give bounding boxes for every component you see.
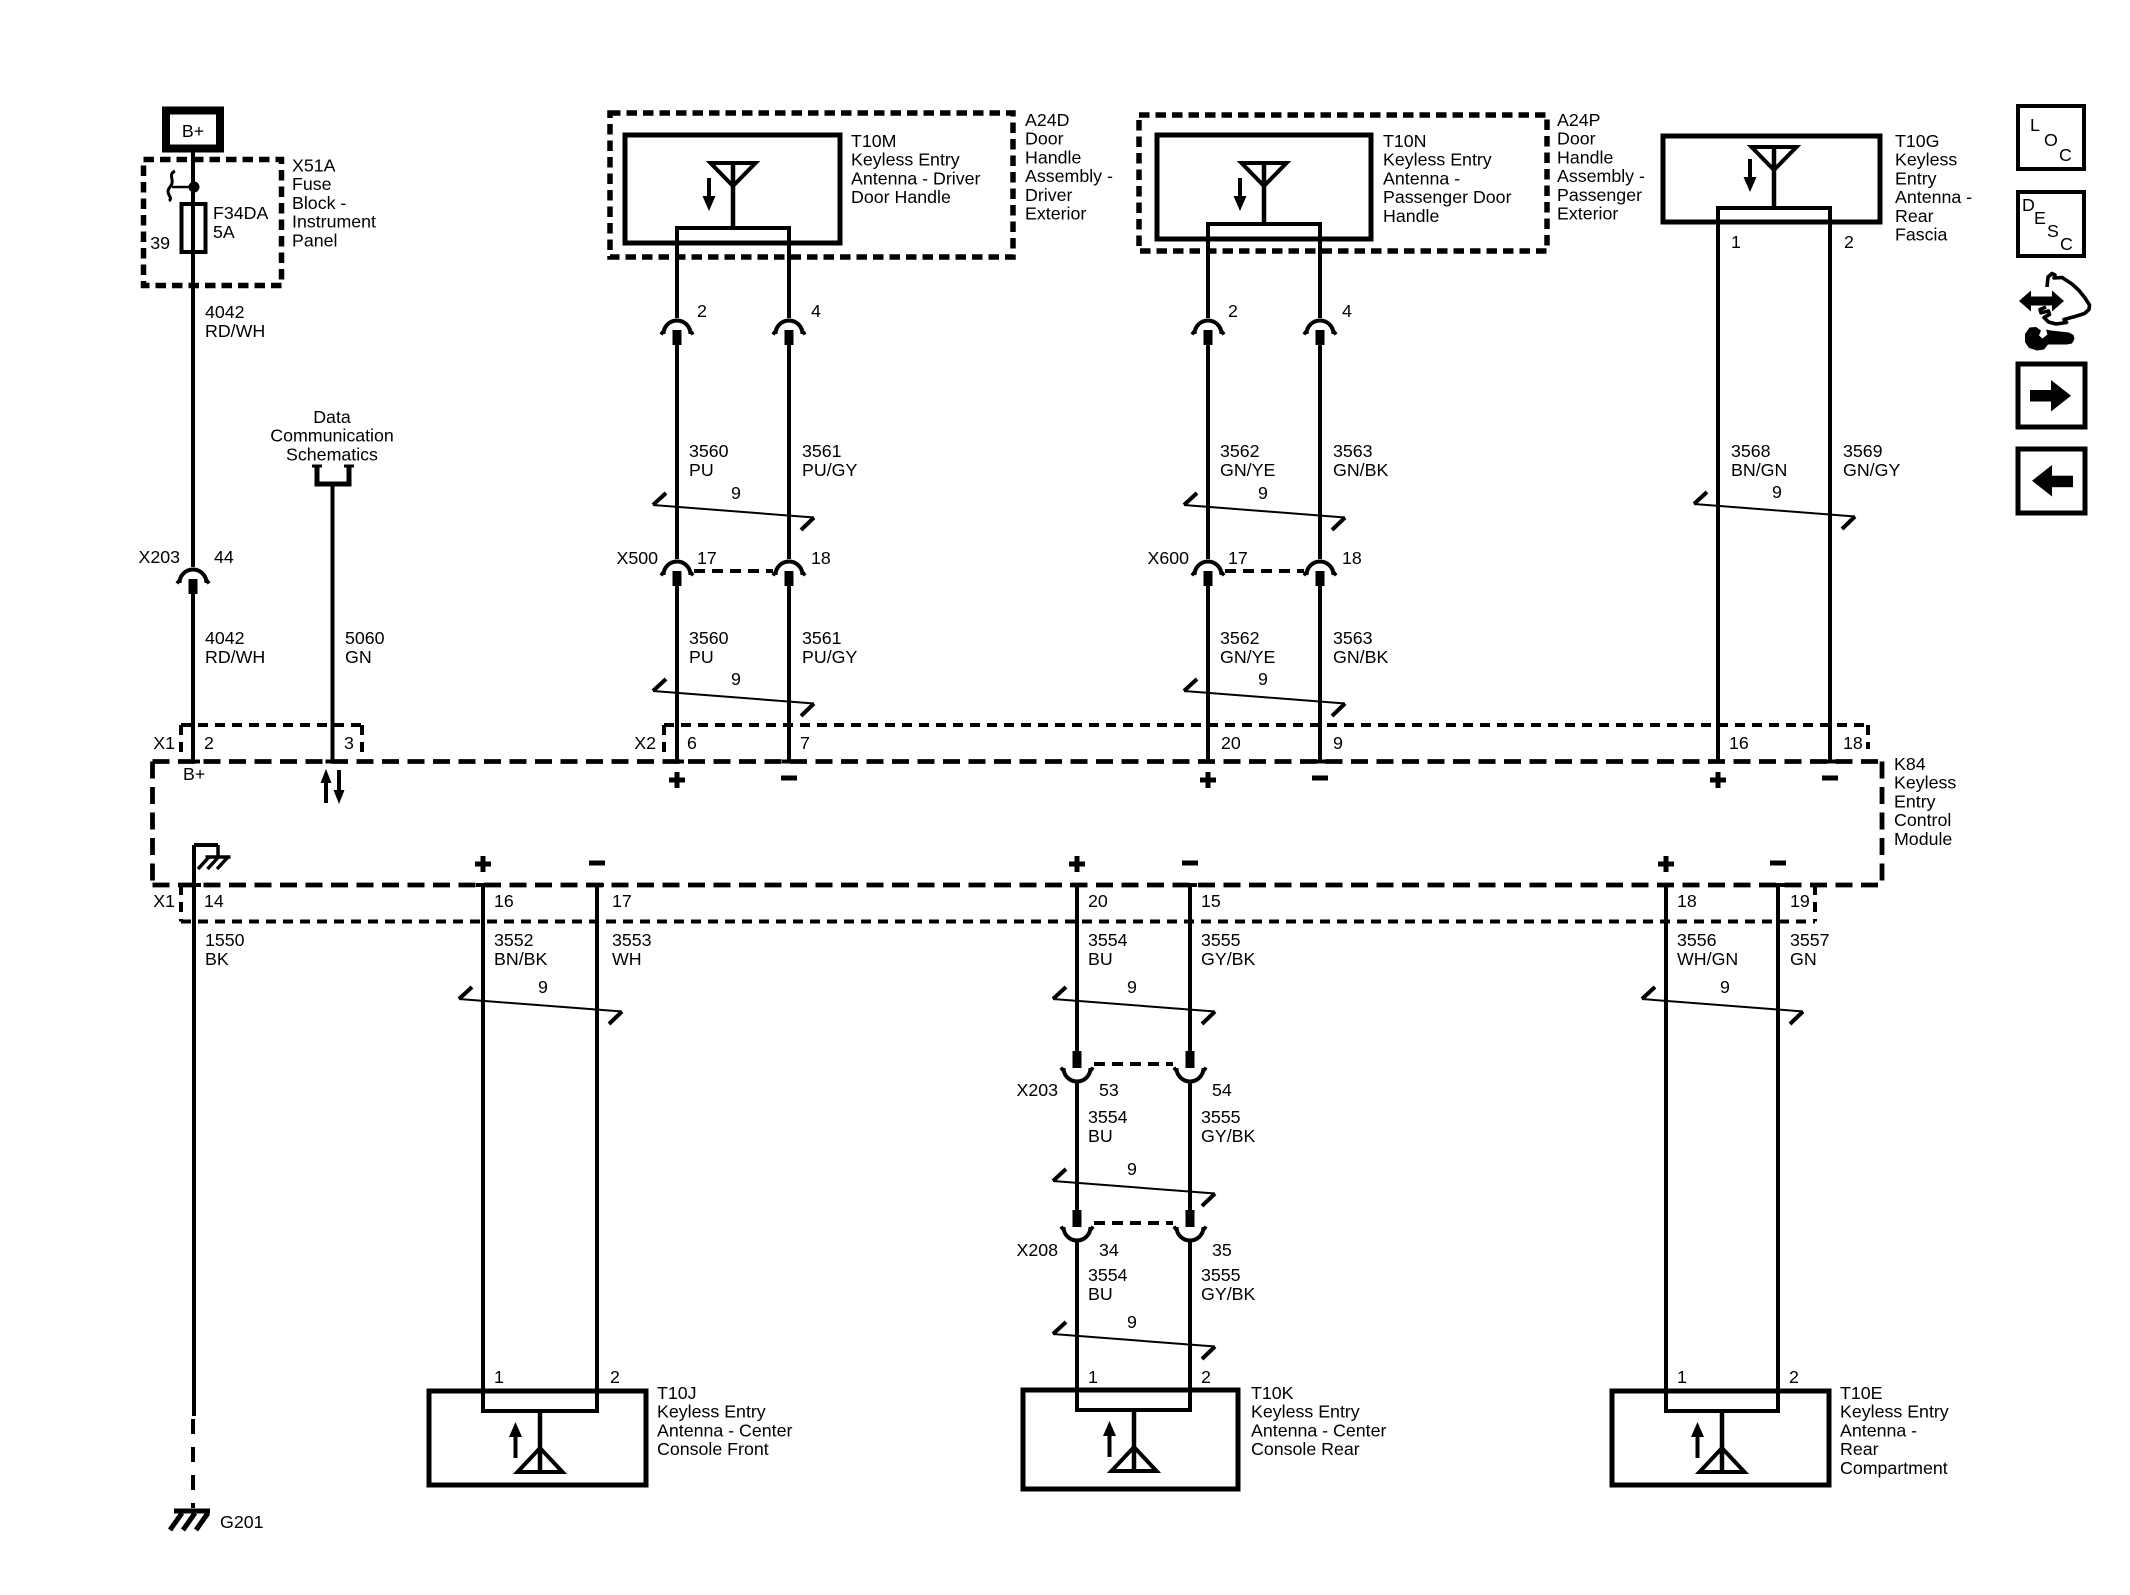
label 3562 GN/YE upper [1220,441,1275,480]
svg-text:16: 16 [1729,733,1749,753]
svg-text:Passenger Door: Passenger Door [1383,187,1512,207]
label 3563 GN/BK upper [1333,441,1388,480]
svg-text:PU: PU [689,460,714,480]
svg-text:Console Rear: Console Rear [1251,1439,1360,1459]
wire 3557 GN [1771,885,1785,1391]
svg-text:E: E [2034,208,2046,228]
minus marker pin 18 top [1822,776,1838,781]
twisted pair marker rear compartment [1642,977,1803,1024]
pin 39 label [150,233,170,253]
svg-text:54: 54 [1212,1080,1232,1100]
svg-text:3561: 3561 [802,441,842,461]
svg-text:53: 53 [1099,1080,1119,1100]
twisted pair marker rear fascia [1694,482,1855,529]
svg-text:3568: 3568 [1731,441,1771,461]
svg-text:Rear: Rear [1895,206,1934,226]
wire 3569 GN/GY [1823,222,1837,762]
label A24D Door Handle Assembly - Driver Exterior [1025,110,1113,224]
svg-text:PU/GY: PU/GY [802,647,857,667]
antenna T10E box [1612,1391,1829,1485]
label 3560 PU lower [689,628,729,667]
connector X500 link [694,569,773,573]
wire 3555 GY/BK segment 3 [1188,1241,1192,1390]
svg-text:9: 9 [1258,483,1268,503]
label T10N Keyless Entry Antenna - Passenger Door Handle [1383,131,1512,226]
plus marker pin 6 [669,772,685,788]
svg-text:G201: G201 [220,1512,264,1532]
wire 3552 BN/BK [476,885,490,1391]
wire 3556 WH/GN [1659,885,1673,1391]
svg-text:7: 7 [800,733,810,753]
twisted pair marker passenger upper [1184,483,1345,530]
icon back arrow box [2018,449,2085,513]
icon wrench [2025,327,2075,351]
wire 3562 GN/YE lower [1201,586,1215,762]
svg-text:C: C [2060,234,2073,254]
wire 3560 PU upper [675,345,679,559]
svg-text:Exterior: Exterior [1557,204,1618,224]
svg-text:9: 9 [1720,977,1730,997]
wire 4042 RD/WH lower [186,594,200,762]
svg-text:4: 4 [1342,301,1352,321]
wire 3554 BU segment 2 [1075,1082,1079,1210]
svg-text:RD/WH: RD/WH [205,321,265,341]
wire 3554 BU segment 3 [1075,1241,1079,1390]
svg-text:Antenna -: Antenna - [1840,1420,1917,1440]
label G201 [220,1512,264,1532]
connector T10N pin 4 [1304,301,1353,345]
antenna T10K connector tab [1077,1390,1190,1410]
svg-text:18: 18 [1677,891,1697,911]
svg-text:T10M: T10M [851,131,896,151]
svg-text:Handle: Handle [1557,147,1613,167]
svg-text:Keyless Entry: Keyless Entry [851,150,960,170]
pin 1 label T10E [1677,1367,1687,1387]
svg-text:Door Handle: Door Handle [851,187,951,207]
door handle assembly A24P dashed box [1139,115,1547,251]
svg-text:O: O [2044,130,2058,150]
svg-text:15: 15 [1201,891,1221,911]
wire T10N pin 2 to connector [1206,239,1210,318]
svg-text:GN: GN [345,647,372,667]
wire 3554 BU segment 1 [1070,885,1084,1051]
svg-text:WH/GN: WH/GN [1677,949,1738,969]
pin 2 label T10G [1844,232,1854,252]
wire 3553 WH [590,885,604,1391]
svg-text:T10K: T10K [1251,1383,1294,1403]
svg-text:5060: 5060 [345,628,385,648]
antenna T10E connector tab [1666,1391,1778,1411]
label 3556 WH/GN [1677,930,1738,969]
svg-text:17: 17 [612,891,632,911]
svg-text:X203: X203 [1016,1080,1058,1100]
svg-text:T10J: T10J [657,1383,697,1403]
svg-text:3562: 3562 [1220,441,1260,461]
svg-text:D: D [2022,195,2035,215]
plus marker pin 20 top [1200,772,1216,788]
connector X500 pin 17 [616,548,716,586]
power symbol B+ [166,111,220,149]
wire 3560 PU lower [670,586,684,762]
wire 3555 GY/BK segment 2 [1188,1082,1192,1210]
antenna T10J symbol [509,1411,563,1472]
svg-text:3561: 3561 [802,628,842,648]
svg-text:X500: X500 [616,548,658,568]
antenna T10G connector tab [1718,208,1830,222]
svg-text:A24P: A24P [1557,110,1601,130]
wire 3555 GY/BK segment 1 [1183,885,1197,1051]
svg-text:PU: PU [689,647,714,667]
svg-text:19: 19 [1790,891,1810,911]
net label B+ inside module [183,764,205,784]
twisted pair marker console rear 3 [1053,1312,1215,1359]
label T10G Keyless Entry Antenna - Rear Fascia [1895,131,1972,245]
label 3561 PU/GY upper [802,441,857,480]
svg-text:20: 20 [1221,733,1241,753]
connector X600 link [1225,569,1304,573]
svg-text:18: 18 [1342,548,1362,568]
antenna T10G symbol [1744,147,1797,208]
svg-text:3557: 3557 [1790,930,1830,950]
svg-text:PU/GY: PU/GY [802,460,857,480]
svg-text:6: 6 [687,733,697,753]
svg-text:Keyless: Keyless [1895,150,1957,170]
connector X600 pin 18 [1304,548,1362,586]
label 3561 PU/GY lower [802,628,857,667]
label 4042 RD/WH upper [205,302,265,341]
label 3554 BU segment 3 [1088,1265,1128,1304]
label 3560 PU upper [689,441,729,480]
pin 2 label T10E [1789,1367,1799,1387]
twisted pair marker console rear 1 [1053,977,1215,1024]
antenna T10E symbol [1691,1411,1745,1472]
svg-text:GN/YE: GN/YE [1220,460,1275,480]
svg-text:9: 9 [538,977,548,997]
connector T10M pin 2 [661,301,707,345]
internal chassis ground symbol [198,857,231,869]
minus marker pin 9 [1312,776,1328,781]
svg-text:Door: Door [1557,129,1596,149]
plus marker pin 20 bottom [1069,856,1085,872]
svg-text:GN/GY: GN/GY [1843,460,1900,480]
svg-text:Rear: Rear [1840,1439,1879,1459]
svg-text:Door: Door [1025,129,1064,149]
svg-text:BU: BU [1088,949,1113,969]
connector X203 pin 54 [1174,1051,1232,1100]
svg-text:T10E: T10E [1840,1383,1883,1403]
svg-text:Passenger: Passenger [1557,185,1642,205]
svg-text:3555: 3555 [1201,1265,1241,1285]
svg-text:9: 9 [1258,669,1268,689]
label 3553 WH [612,930,652,969]
svg-text:44: 44 [214,547,234,567]
svg-text:2: 2 [1789,1367,1799,1387]
pin 2 label T10J [610,1367,620,1387]
module K84 dashed border [153,762,1883,886]
icon DESC box [2018,192,2084,256]
svg-text:2: 2 [204,733,214,753]
svg-text:3563: 3563 [1333,441,1373,461]
svg-text:Entry: Entry [1894,791,1936,811]
plus marker pin 18 bottom [1658,856,1674,872]
label T10J Keyless Entry Antenna - Center Console Front [657,1383,792,1459]
svg-text:34: 34 [1099,1240,1119,1260]
svg-text:F34DA: F34DA [213,203,268,223]
pin 2 label T10K [1201,1367,1211,1387]
svg-text:X2: X2 [634,733,656,753]
wire 4042 RD/WH upper [191,252,195,567]
svg-text:3554: 3554 [1088,1107,1128,1127]
svg-text:Entry: Entry [1895,168,1937,188]
connector X208 pin 34 [1016,1210,1118,1260]
wire 3562 GN/YE upper [1206,345,1210,559]
svg-text:X51A: X51A [292,156,336,176]
wire to G201 dashed [191,1419,195,1508]
connector X203 pin 44 [138,547,233,594]
svg-text:Communication: Communication [270,426,394,446]
svg-text:Instrument: Instrument [292,212,376,232]
svg-text:BU: BU [1088,1126,1113,1146]
svg-text:BN/BK: BN/BK [494,949,548,969]
svg-text:T10G: T10G [1895,131,1939,151]
twisted pair marker driver upper [653,483,814,530]
svg-text:X1: X1 [153,891,175,911]
svg-text:3552: 3552 [494,930,534,950]
label 4042 RD/WH lower [205,628,265,667]
svg-text:RD/WH: RD/WH [205,647,265,667]
svg-text:S: S [2047,221,2059,241]
pin 1 label T10K [1088,1367,1098,1387]
svg-text:Fascia: Fascia [1895,225,1947,245]
svg-text:14: 14 [204,891,224,911]
svg-text:T10N: T10N [1383,131,1426,151]
svg-text:X208: X208 [1016,1240,1058,1260]
label Data Communication Schematics [270,407,394,464]
svg-text:Driver: Driver [1025,185,1072,205]
wire 3568 BN/GN [1711,222,1725,762]
svg-text:Handle: Handle [1025,147,1081,167]
svg-text:1: 1 [1677,1367,1687,1387]
label 3557 GN [1790,930,1830,969]
label K84 Keyless Entry Control Module [1894,754,1956,849]
antenna T10M symbol [703,163,756,228]
svg-text:BU: BU [1088,1284,1113,1304]
connector X203 link [1094,1062,1173,1066]
wire 3563 GN/BK lower [1313,586,1327,762]
twisted pair marker driver lower [653,669,814,716]
svg-text:3: 3 [344,733,354,753]
connector X600 pin 17 [1147,548,1247,586]
svg-text:K84: K84 [1894,754,1926,774]
svg-text:1550: 1550 [205,930,245,950]
pin 1 label T10J [494,1367,504,1387]
svg-text:3560: 3560 [689,441,729,461]
label 3568 BN/GN [1731,441,1787,480]
svg-text:L: L [2030,115,2040,135]
plus marker pin 16 bottom [475,856,491,872]
svg-text:Antenna -: Antenna - [1895,187,1972,207]
module top pin row X1 [153,725,362,759]
svg-text:18: 18 [1843,733,1863,753]
svg-text:3554: 3554 [1088,1265,1128,1285]
svg-text:18: 18 [811,548,831,568]
svg-text:2: 2 [1844,232,1854,252]
label T10K Keyless Entry Antenna - Center Console Rear [1251,1383,1386,1459]
serial data arrows pin 3 [321,769,345,804]
label 1550 BK [205,930,245,969]
svg-text:9: 9 [731,669,741,689]
connector X208 pin 35 [1174,1210,1232,1260]
svg-text:Assembly -: Assembly - [1557,166,1645,186]
label A24P Door Handle Assembly - Passenger Exterior [1557,110,1645,224]
svg-text:9: 9 [1333,733,1343,753]
wire T10M pin 2 to connector [675,243,679,318]
icon LOC box [2018,106,2084,169]
svg-text:GY/BK: GY/BK [1201,1284,1255,1304]
connector X500 pin 18 [773,548,831,586]
svg-text:Block -: Block - [292,193,346,213]
antenna T10K box [1023,1390,1238,1489]
svg-text:Keyless Entry: Keyless Entry [1251,1402,1360,1422]
svg-text:3569: 3569 [1843,441,1883,461]
pin 1 label T10G [1731,232,1741,252]
icon car outline [2040,274,2090,325]
svg-text:C: C [2059,145,2072,165]
label 3562 GN/YE lower [1220,628,1275,667]
svg-text:3553: 3553 [612,930,652,950]
icon compare double arrow [2019,291,2064,312]
label T10E Keyless Entry Antenna - Rear Compartment [1840,1383,1949,1478]
wire B+ to fuse 39 [191,152,195,206]
svg-text:9: 9 [1772,482,1782,502]
fuse block bus branch squiggle [168,171,199,201]
svg-text:2: 2 [610,1367,620,1387]
svg-text:B+: B+ [183,764,205,784]
svg-text:Panel: Panel [292,230,337,250]
svg-text:2: 2 [1228,301,1238,321]
svg-text:16: 16 [494,891,514,911]
antenna T10N connector tab [1208,224,1320,239]
wire 3563 GN/BK upper [1318,345,1322,559]
svg-text:3563: 3563 [1333,628,1373,648]
svg-text:Antenna - Driver: Antenna - Driver [851,168,981,188]
twisted pair marker passenger lower [1184,669,1345,716]
icon forward arrow box [2018,364,2085,427]
svg-text:Keyless: Keyless [1894,773,1956,793]
antenna T10J connector tab [483,1391,597,1411]
label 3554 BU segment 1 [1088,930,1128,969]
svg-text:X203: X203 [138,547,180,567]
wire 3561 PU/GY lower [782,586,796,762]
svg-text:X1: X1 [153,733,175,753]
twisted pair marker console rear 2 [1053,1159,1215,1206]
antenna T10M box [625,135,840,243]
svg-text:GN/BK: GN/BK [1333,460,1388,480]
svg-text:3554: 3554 [1088,930,1128,950]
module bottom pin row X1 [153,885,1815,922]
svg-text:Control: Control [1894,810,1951,830]
door handle assembly A24D dashed box [610,113,1013,257]
svg-text:Schematics: Schematics [286,444,378,464]
minus marker pin 15 bottom [1182,861,1198,866]
connector X203 pin 53 [1016,1051,1118,1100]
svg-text:Compartment: Compartment [1840,1458,1948,1478]
connector T10N pin 2 [1192,301,1238,345]
label 5060 GN [345,628,385,667]
label 3555 GY/BK segment 1 [1201,930,1255,969]
svg-text:Antenna - Center: Antenna - Center [657,1420,792,1440]
internal ground wire [194,845,218,885]
minus marker pin 17 bottom [589,861,605,866]
svg-text:39: 39 [150,233,170,253]
svg-text:1: 1 [494,1367,504,1387]
svg-text:17: 17 [697,548,717,568]
svg-text:GY/BK: GY/BK [1201,1126,1255,1146]
svg-text:9: 9 [1127,1312,1137,1332]
label 3555 GY/BK segment 2 [1201,1107,1255,1146]
svg-text:WH: WH [612,949,642,969]
svg-text:3560: 3560 [689,628,729,648]
svg-text:2: 2 [697,301,707,321]
wire 1550 BK [187,885,201,1416]
plus marker pin 16 top [1710,772,1726,788]
svg-text:BN/GN: BN/GN [1731,460,1787,480]
svg-text:GN: GN [1790,949,1817,969]
antenna T10G box [1663,136,1880,222]
label 3552 BN/BK [494,930,548,969]
svg-text:Fuse: Fuse [292,174,332,194]
label X51A Fuse Block - Instrument Panel [292,156,376,251]
svg-text:3555: 3555 [1201,930,1241,950]
svg-text:A24D: A24D [1025,110,1069,130]
module top pin row X2 [634,725,1868,759]
minus marker pin 7 [781,776,797,781]
minus marker pin 19 bottom [1770,861,1786,866]
twisted pair marker console front [459,977,622,1024]
svg-text:Data: Data [313,407,351,427]
label T10M Keyless Entry Antenna - Driver Door Handle [851,131,981,207]
antenna T10M connector tab [677,228,789,243]
svg-text:3556: 3556 [1677,930,1717,950]
svg-text:Antenna - Center: Antenna - Center [1251,1420,1386,1440]
connector X208 link [1094,1221,1173,1225]
label 3554 BU segment 2 [1088,1107,1128,1146]
svg-text:Keyless Entry: Keyless Entry [1383,150,1492,170]
wire 5060 GN [326,486,340,762]
antenna T10N symbol [1234,163,1287,224]
svg-text:4: 4 [811,301,821,321]
label 3569 GN/GY [1843,441,1900,480]
svg-text:Assembly -: Assembly - [1025,166,1113,186]
svg-text:GN/BK: GN/BK [1333,647,1388,667]
svg-text:3555: 3555 [1201,1107,1241,1127]
fuse block X51A dashed box [144,160,282,286]
wire T10N pin 4 to connector [1318,239,1322,318]
off-page bracket [312,466,354,484]
svg-text:1: 1 [1731,232,1741,252]
svg-text:5A: 5A [213,222,235,242]
label 3563 GN/BK lower [1333,628,1388,667]
svg-text:35: 35 [1212,1240,1232,1260]
svg-text:9: 9 [1127,1159,1137,1179]
antenna T10J box [429,1391,646,1485]
svg-text:9: 9 [1127,977,1137,997]
wire T10M pin 4 to connector [787,243,791,318]
label 3555 GY/BK segment 3 [1201,1265,1255,1304]
fuse F34DA 5A [182,203,269,252]
svg-text:9: 9 [731,483,741,503]
svg-text:Exterior: Exterior [1025,204,1086,224]
